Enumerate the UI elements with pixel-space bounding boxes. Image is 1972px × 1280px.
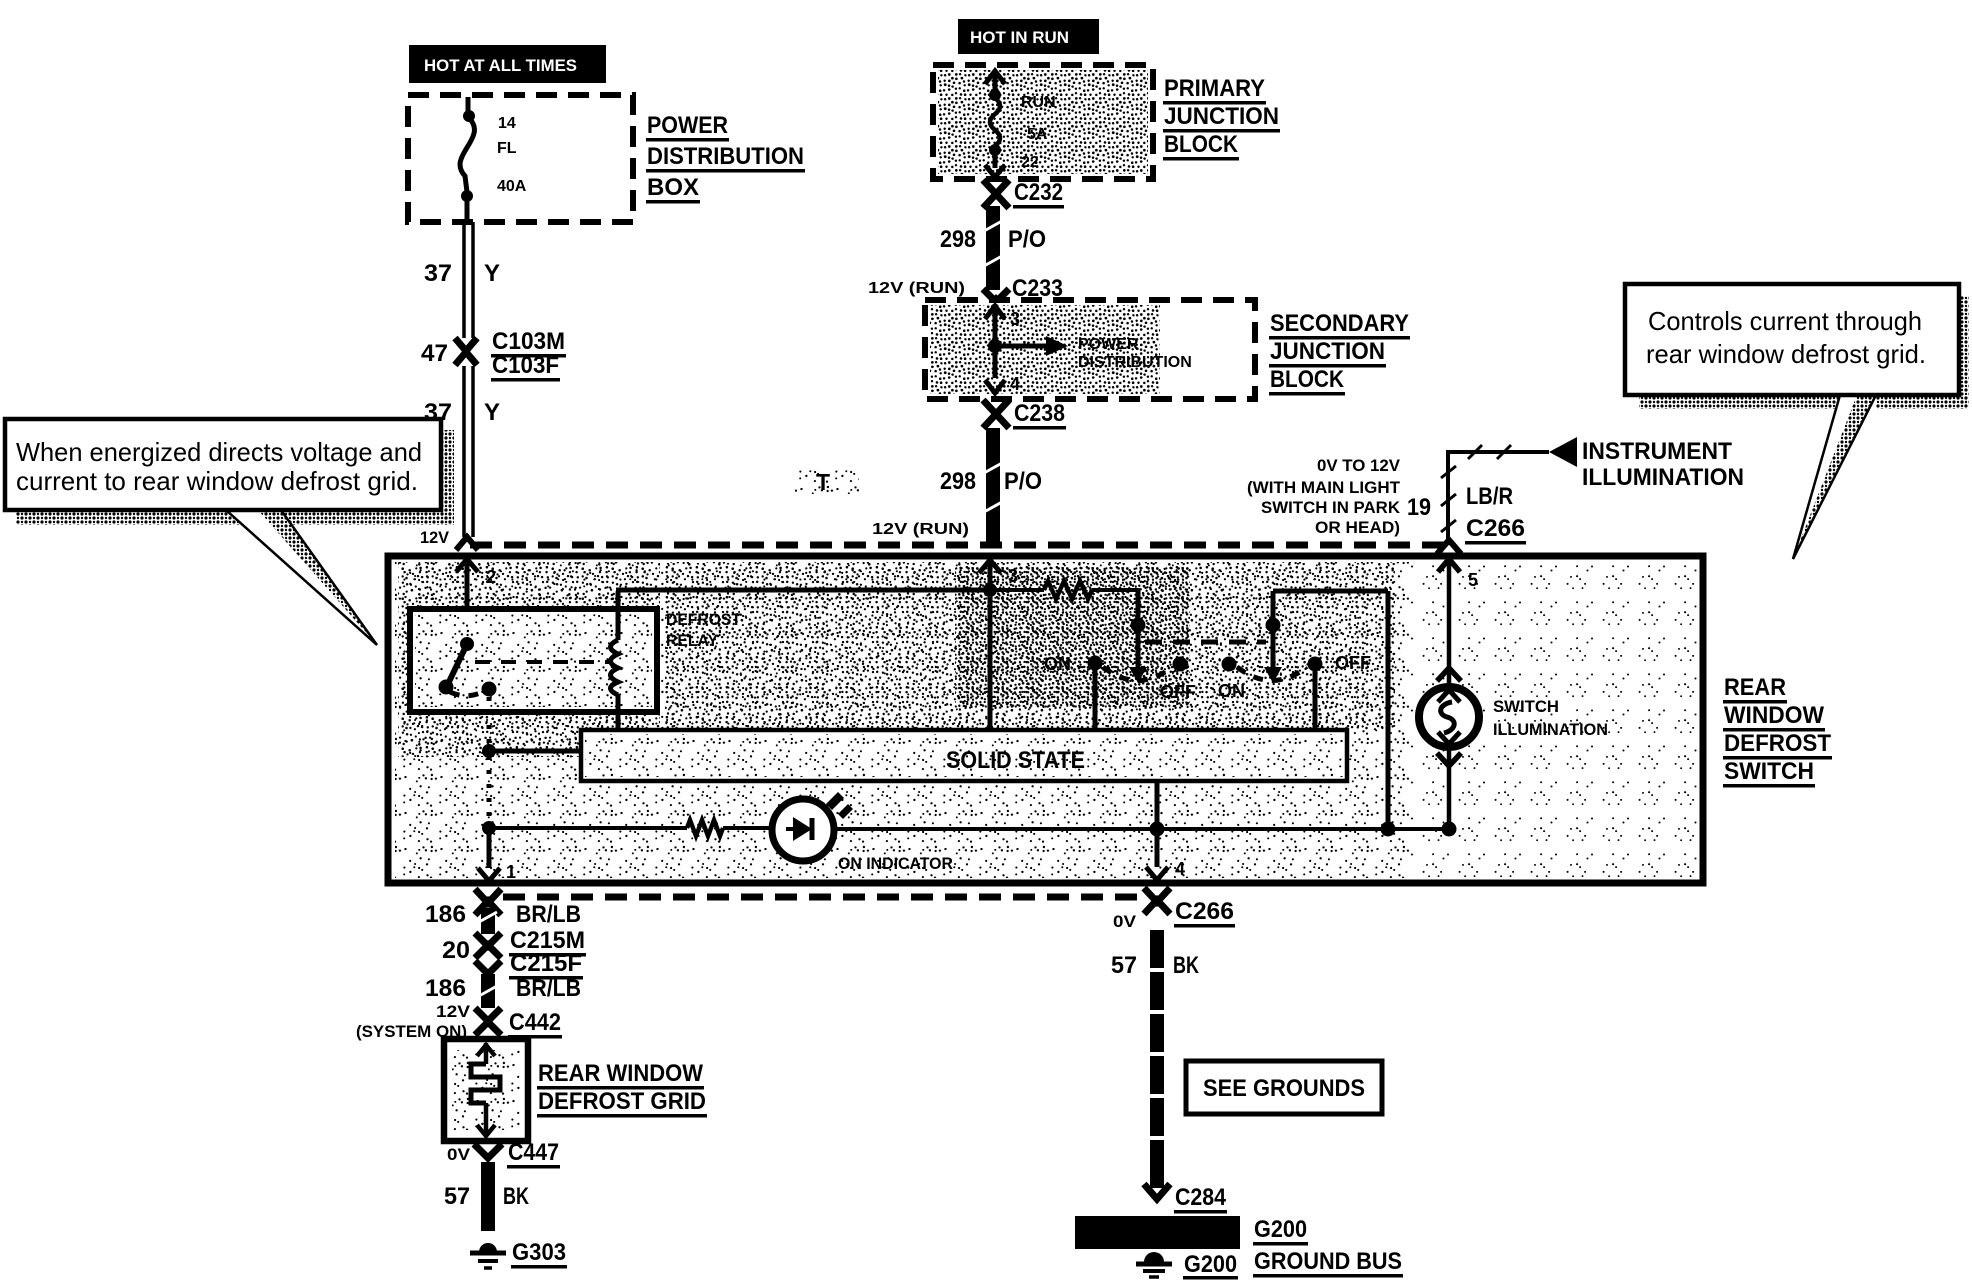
- svg-text:0V TO 12V: 0V TO 12V: [1317, 456, 1401, 475]
- power label HOT AT ALL TIMES: [409, 45, 606, 83]
- wire 298 P/O lower: [872, 428, 1042, 543]
- wire 57 BK left: [444, 1162, 529, 1231]
- svg-text:12V (RUN): 12V (RUN): [872, 521, 969, 538]
- svg-text:BK: BK: [1173, 952, 1199, 979]
- svg-text:When energized directs voltage: When energized directs voltage and: [16, 437, 422, 467]
- svg-text:DEFROST: DEFROST: [666, 611, 741, 629]
- svg-text:INSTRUMENT: INSTRUMENT: [1582, 438, 1732, 465]
- svg-text:12V: 12V: [420, 528, 450, 547]
- on indicator resistor: [489, 820, 775, 836]
- svg-text:12V: 12V: [436, 1002, 471, 1021]
- pin 3: [979, 560, 1018, 730]
- svg-text:rear window defrost grid.: rear window defrost grid.: [1646, 339, 1926, 369]
- wire 37 Y lower (double line): [424, 366, 500, 537]
- connector at pin 1: [475, 889, 501, 915]
- connector C442: [356, 1002, 562, 1041]
- svg-text:FL: FL: [497, 140, 517, 157]
- rear window defrost switch box: [388, 556, 1703, 883]
- label POWER DISTRIBUTION BOX: [646, 112, 805, 204]
- power label HOT IN RUN: [958, 19, 1099, 54]
- pin 5 and switch illumination lamp: [1419, 559, 1608, 829]
- svg-text:G200: G200: [1254, 1216, 1307, 1243]
- fusible link FL 14 40A: [460, 97, 527, 222]
- svg-text:RELAY: RELAY: [666, 632, 718, 650]
- svg-text:P/O: P/O: [1008, 226, 1046, 253]
- svg-text:ON: ON: [1044, 654, 1071, 674]
- svg-text:REAR WINDOW: REAR WINDOW: [538, 1060, 703, 1087]
- pin 2: [456, 559, 496, 644]
- svg-text:47: 47: [421, 340, 448, 367]
- svg-text:2: 2: [486, 567, 496, 587]
- svg-text:Controls current through: Controls current through: [1648, 306, 1922, 336]
- svg-text:JUNCTION: JUNCTION: [1164, 103, 1279, 130]
- fuse 5A (RUN 22): [985, 71, 1056, 177]
- svg-text:22: 22: [1021, 154, 1039, 171]
- svg-text:57: 57: [444, 1183, 470, 1210]
- svg-text:Y: Y: [484, 399, 500, 426]
- svg-text:C232: C232: [1014, 179, 1063, 206]
- power distribution node inside secondary junction block: [985, 304, 1192, 394]
- svg-text:PRIMARY: PRIMARY: [1164, 75, 1265, 102]
- svg-text:DISTRIBUTION: DISTRIBUTION: [1078, 354, 1192, 371]
- svg-text:C238: C238: [1014, 400, 1065, 427]
- svg-text:C447: C447: [508, 1139, 559, 1166]
- svg-text:BLOCK: BLOCK: [1164, 131, 1239, 158]
- ground G303: [470, 1239, 567, 1269]
- svg-text:C103M: C103M: [492, 328, 565, 355]
- svg-text:POWER: POWER: [647, 112, 728, 139]
- svg-text:OR HEAD): OR HEAD): [1315, 518, 1400, 537]
- svg-text:298: 298: [940, 226, 976, 253]
- svg-text:SOLID STATE: SOLID STATE: [946, 747, 1085, 774]
- svg-text:WINDOW: WINDOW: [1724, 702, 1824, 729]
- svg-text:1: 1: [506, 862, 516, 882]
- svg-text:C215F: C215F: [510, 950, 582, 977]
- connector C215M / C215F: [442, 927, 586, 980]
- dashed connector bus (top of switch): [470, 542, 1447, 549]
- svg-text:BK: BK: [503, 1183, 529, 1210]
- svg-text:OFF: OFF: [1160, 682, 1196, 702]
- svg-text:SEE GROUNDS: SEE GROUNDS: [1203, 1075, 1365, 1102]
- power distribution box (dashed): [408, 95, 633, 222]
- solid state module: [581, 730, 1347, 781]
- secondary junction block (dashed): [925, 300, 1255, 399]
- see grounds note: [1186, 1061, 1382, 1114]
- svg-text:C284: C284: [1175, 1184, 1227, 1211]
- on/off rocker switch right: [1218, 591, 1388, 828]
- svg-text:3: 3: [1008, 566, 1018, 586]
- svg-text:0V: 0V: [447, 1145, 471, 1164]
- primary junction block (dashed): [933, 65, 1153, 179]
- connector C233: [868, 275, 1064, 312]
- svg-text:JUNCTION: JUNCTION: [1270, 338, 1385, 365]
- wire 37 Y upper (double line): [424, 222, 500, 338]
- ground G200 symbol: [1136, 1251, 1238, 1280]
- instrument illumination wire 19 LB/R: [1247, 437, 1744, 545]
- svg-text:(WITH MAIN LIGHT: (WITH MAIN LIGHT: [1247, 478, 1401, 497]
- svg-text:SECONDARY: SECONDARY: [1270, 310, 1409, 337]
- label SECONDARY JUNCTION BLOCK: [1269, 310, 1410, 396]
- connector C266 (bottom, pin 4): [1113, 888, 1235, 931]
- connector C284: [1144, 1178, 1227, 1214]
- svg-text:current to rear window defros: current to rear window defrost grid.: [16, 466, 418, 496]
- svg-text:0V: 0V: [1113, 912, 1137, 931]
- svg-text:BR/LB: BR/LB: [516, 901, 581, 928]
- svg-text:POWER: POWER: [1078, 336, 1139, 353]
- on indicator LED: [772, 792, 1457, 873]
- wire relay contact to pin 1 (dotted): [482, 697, 581, 835]
- svg-text:SWITCH IN PARK: SWITCH IN PARK: [1261, 498, 1401, 517]
- pin 4: [1146, 781, 1185, 880]
- svg-text:HOT AT ALL TIMES: HOT AT ALL TIMES: [424, 56, 577, 75]
- svg-text:5: 5: [1468, 570, 1478, 590]
- svg-text:3: 3: [1010, 309, 1020, 329]
- svg-text:14: 14: [498, 115, 516, 132]
- svg-text:ON: ON: [1218, 681, 1245, 701]
- svg-text:ILLUMINATION: ILLUMINATION: [1582, 464, 1744, 491]
- svg-text:DEFROST: DEFROST: [1724, 730, 1831, 757]
- svg-text:HOT IN RUN: HOT IN RUN: [970, 28, 1069, 47]
- connector C266 at bus (right): [1437, 540, 1461, 554]
- svg-text:4: 4: [1175, 859, 1185, 879]
- connector C238: [983, 400, 1066, 430]
- label REAR WINDOW DEFROST SWITCH: [1723, 674, 1832, 788]
- svg-text:G303: G303: [512, 1239, 566, 1266]
- svg-text:ON INDICATOR: ON INDICATOR: [838, 854, 953, 873]
- on/off rocker switch left: [1044, 618, 1266, 731]
- connector C103M / C103F: [421, 328, 566, 382]
- svg-text:DEFROST GRID: DEFROST GRID: [538, 1088, 706, 1115]
- wire 186 BR/LB upper: [425, 901, 581, 934]
- relay switch arm: [439, 637, 613, 697]
- svg-text:C266: C266: [1175, 898, 1234, 925]
- node 12V at switch bus: [420, 528, 478, 550]
- svg-text:DISTRIBUTION: DISTRIBUTION: [647, 143, 804, 170]
- wire 186 BR/LB lower: [425, 974, 581, 1008]
- svg-text:SWITCH: SWITCH: [1724, 758, 1814, 785]
- wire 57 BK right: [1111, 930, 1199, 1178]
- svg-text:P/O: P/O: [1004, 468, 1042, 495]
- relay coil: [611, 590, 991, 730]
- rear window defrost grid: [444, 1039, 707, 1141]
- svg-text:RUN: RUN: [1021, 94, 1056, 111]
- svg-text:186: 186: [425, 975, 466, 1002]
- svg-text:LB/R: LB/R: [1466, 483, 1513, 510]
- label PRIMARY JUNCTION BLOCK: [1163, 75, 1280, 161]
- svg-text:186: 186: [425, 901, 466, 928]
- svg-text:19: 19: [1407, 494, 1431, 521]
- svg-text:20: 20: [442, 937, 470, 964]
- svg-text:OFF: OFF: [1335, 653, 1371, 673]
- callout note right: [1625, 284, 1969, 559]
- svg-text:Y: Y: [484, 260, 500, 287]
- svg-text:SWITCH: SWITCH: [1493, 697, 1559, 716]
- svg-text:BLOCK: BLOCK: [1270, 366, 1345, 393]
- svg-text:REAR: REAR: [1724, 674, 1786, 701]
- svg-text:BOX: BOX: [647, 174, 699, 201]
- scan artifact T mark: [795, 469, 859, 495]
- resistor (solid state feed): [990, 581, 1138, 622]
- svg-text:57: 57: [1111, 952, 1137, 979]
- svg-text:BR/LB: BR/LB: [516, 975, 581, 1002]
- defrost relay box: [410, 609, 741, 712]
- svg-text:12V (RUN): 12V (RUN): [868, 280, 965, 297]
- connector C232: [983, 179, 1064, 209]
- svg-text:4: 4: [1010, 374, 1020, 394]
- connector C447: [447, 1139, 560, 1169]
- svg-text:GROUND BUS: GROUND BUS: [1254, 1248, 1402, 1275]
- svg-text:G200: G200: [1184, 1251, 1237, 1278]
- svg-text:5A: 5A: [1027, 126, 1048, 143]
- svg-text:C103F: C103F: [492, 352, 559, 379]
- pin 1: [478, 828, 516, 882]
- ground bus G200: [1075, 1216, 1403, 1278]
- svg-text:C266: C266: [1466, 515, 1525, 542]
- svg-text:298: 298: [940, 468, 976, 495]
- callout note left: [5, 419, 454, 645]
- svg-text:37: 37: [424, 260, 452, 287]
- wire 298 P/O upper: [940, 206, 1046, 290]
- svg-text:ILLUMINATION: ILLUMINATION: [1493, 720, 1608, 739]
- svg-text:C442: C442: [509, 1009, 561, 1036]
- dashed connector bus (bottom of switch): [503, 894, 1143, 901]
- svg-text:40A: 40A: [497, 178, 527, 195]
